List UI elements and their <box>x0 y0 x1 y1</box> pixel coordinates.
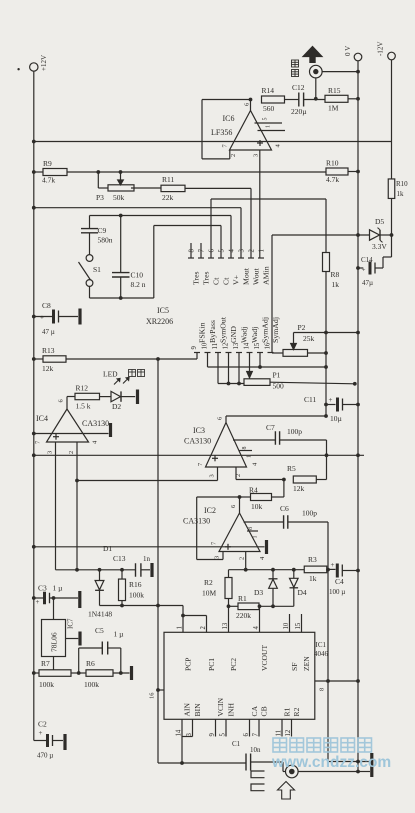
svg-text:D2: D2 <box>112 402 121 411</box>
svg-text:12k: 12k <box>293 484 305 493</box>
svg-text:AMin: AMin <box>261 266 270 285</box>
svg-text:10M: 10M <box>202 589 217 598</box>
svg-text:VCOUT: VCOUT <box>260 644 269 671</box>
svg-text:V+: V+ <box>231 274 240 285</box>
svg-text:R10: R10 <box>326 159 339 168</box>
svg-text:Tres: Tres <box>201 271 210 285</box>
svg-text:1M: 1M <box>328 104 339 113</box>
svg-text:+: + <box>329 396 333 404</box>
svg-text:R15: R15 <box>328 86 341 95</box>
svg-text:R13: R13 <box>42 346 55 355</box>
svg-text:22k: 22k <box>162 193 174 202</box>
svg-text:1k: 1k <box>397 190 405 198</box>
svg-text:47µ: 47µ <box>362 279 373 287</box>
svg-text:+: + <box>39 729 43 737</box>
svg-text:470 µ: 470 µ <box>37 752 53 760</box>
svg-text:Ct: Ct <box>211 277 220 285</box>
svg-text:C10: C10 <box>131 271 144 280</box>
svg-text:Mout: Mout <box>241 267 250 285</box>
svg-text:SymOut: SymOut <box>218 316 227 343</box>
svg-text:BIN: BIN <box>193 703 202 717</box>
svg-text:8: 8 <box>242 447 248 450</box>
svg-text:R12: R12 <box>76 384 89 393</box>
svg-text:12k: 12k <box>42 364 54 373</box>
svg-text:R4: R4 <box>249 486 258 495</box>
svg-text:100p: 100p <box>302 509 317 518</box>
svg-text:Wout: Wout <box>251 267 260 285</box>
svg-text:10k: 10k <box>251 502 263 511</box>
svg-text:C12: C12 <box>292 83 305 92</box>
svg-text:INH: INH <box>227 702 236 716</box>
svg-text:SymAdj: SymAdj <box>260 317 269 343</box>
svg-text:8.2 n: 8.2 n <box>131 280 146 289</box>
svg-text:C11: C11 <box>304 395 316 404</box>
svg-text:4: 4 <box>229 249 236 253</box>
svg-text:1: 1 <box>247 455 253 458</box>
svg-text:1n: 1n <box>143 555 151 563</box>
svg-text:LED: LED <box>103 370 118 379</box>
svg-text:220k: 220k <box>236 611 251 620</box>
svg-text:R5: R5 <box>287 464 296 473</box>
svg-text:8: 8 <box>319 688 326 691</box>
svg-text:R2: R2 <box>204 578 213 587</box>
svg-text:7: 7 <box>199 249 206 253</box>
svg-text:3: 3 <box>209 474 216 477</box>
svg-text:D4: D4 <box>298 588 307 597</box>
svg-text:+12V: +12V <box>40 55 48 71</box>
svg-text:1.5 k: 1.5 k <box>76 402 91 411</box>
svg-text:10µ: 10µ <box>330 414 343 423</box>
svg-text:CA: CA <box>250 705 259 716</box>
svg-text:C9: C9 <box>98 226 107 235</box>
svg-text:5: 5 <box>263 118 269 121</box>
svg-text:100k: 100k <box>39 680 54 689</box>
svg-text:R1: R1 <box>238 594 247 603</box>
svg-text:9: 9 <box>191 346 198 350</box>
svg-text:100k: 100k <box>129 591 144 600</box>
svg-text:+: + <box>331 561 335 569</box>
svg-text:1 µ: 1 µ <box>53 584 64 593</box>
svg-text:+: + <box>36 598 40 606</box>
svg-text:-12V: -12V <box>377 42 385 56</box>
svg-text:P2: P2 <box>298 323 306 332</box>
svg-text:SF: SF <box>290 663 299 671</box>
svg-text:2: 2 <box>68 451 75 454</box>
svg-text:FSKin: FSKin <box>197 323 206 343</box>
svg-text:4.7k: 4.7k <box>326 175 339 184</box>
svg-text:4: 4 <box>253 626 260 630</box>
svg-text:C4: C4 <box>335 577 344 586</box>
svg-text:1k: 1k <box>332 280 340 289</box>
svg-text:100k: 100k <box>84 680 99 689</box>
svg-text:C7: C7 <box>266 423 275 432</box>
svg-text:C1: C1 <box>232 740 241 748</box>
svg-text:PCP: PCP <box>184 657 193 671</box>
svg-text:GND: GND <box>229 326 238 343</box>
svg-text:2: 2 <box>249 249 256 253</box>
svg-text:IC4: IC4 <box>36 414 48 423</box>
svg-text:C6: C6 <box>280 504 289 513</box>
svg-text:D5: D5 <box>375 217 384 226</box>
svg-text:C8: C8 <box>42 301 51 310</box>
svg-text:100p: 100p <box>287 427 302 436</box>
svg-text:5: 5 <box>219 249 226 253</box>
svg-text:10n: 10n <box>250 746 261 754</box>
svg-text:LF356: LF356 <box>211 128 232 137</box>
svg-text:ZEN: ZEN <box>302 656 311 671</box>
svg-text:1: 1 <box>177 626 184 629</box>
svg-text:IC3: IC3 <box>193 426 205 435</box>
svg-text:Tres: Tres <box>191 271 200 285</box>
svg-text:R6: R6 <box>86 659 95 668</box>
svg-text:D1: D1 <box>103 544 112 553</box>
svg-text:4046: 4046 <box>314 650 329 658</box>
svg-text:2: 2 <box>235 474 242 477</box>
svg-text:+: + <box>362 266 366 274</box>
svg-text:R10: R10 <box>396 180 408 188</box>
svg-text:78L06: 78L06 <box>50 632 59 652</box>
svg-text:www.cndzz.com: www.cndzz.com <box>271 754 391 771</box>
svg-text:13: 13 <box>222 622 229 629</box>
svg-text:1: 1 <box>266 125 272 128</box>
svg-text:AIN: AIN <box>183 702 192 716</box>
svg-text:CA3130: CA3130 <box>183 517 210 526</box>
svg-text:580n: 580n <box>98 236 113 245</box>
svg-text:3: 3 <box>47 451 54 454</box>
svg-text:4.7k: 4.7k <box>42 176 55 185</box>
svg-text:25k: 25k <box>303 334 315 343</box>
svg-text:R1: R1 <box>283 707 292 716</box>
svg-text:PC1: PC1 <box>207 658 216 671</box>
svg-text:C13: C13 <box>113 554 126 563</box>
svg-text:D3: D3 <box>254 588 263 597</box>
svg-text:1 µ: 1 µ <box>114 630 125 639</box>
svg-text:1: 1 <box>259 249 266 252</box>
svg-text:Wadj: Wadj <box>250 327 259 343</box>
svg-text:2: 2 <box>200 626 207 630</box>
svg-text:IC1: IC1 <box>316 641 327 649</box>
svg-text:R8: R8 <box>331 270 340 279</box>
svg-text:CB: CB <box>260 706 269 716</box>
svg-text:100 µ: 100 µ <box>329 588 345 596</box>
svg-text:1k: 1k <box>309 574 317 583</box>
svg-text:P1: P1 <box>273 371 281 380</box>
svg-text:R7: R7 <box>41 659 50 668</box>
svg-text:R9: R9 <box>43 159 52 168</box>
svg-text:1N4148: 1N4148 <box>88 610 112 619</box>
svg-text:C3: C3 <box>38 584 47 593</box>
svg-text:ByPass: ByPass <box>208 320 217 343</box>
svg-text:Ct: Ct <box>221 277 230 285</box>
svg-text:IC7: IC7 <box>67 618 75 629</box>
svg-text:+: + <box>40 314 44 322</box>
svg-text:IC2: IC2 <box>204 506 216 515</box>
svg-text:R16: R16 <box>129 580 142 589</box>
svg-text:8: 8 <box>189 249 196 253</box>
svg-text:PC2: PC2 <box>229 658 238 671</box>
svg-text:R2: R2 <box>292 707 301 716</box>
svg-text:R14: R14 <box>262 86 275 95</box>
svg-text:P3: P3 <box>96 193 104 202</box>
svg-text:VCIN: VCIN <box>216 697 225 716</box>
svg-text:3: 3 <box>214 556 221 559</box>
svg-text:2: 2 <box>230 154 237 157</box>
svg-text:8: 8 <box>248 527 254 530</box>
svg-text:CA3130: CA3130 <box>82 419 109 428</box>
svg-text:2: 2 <box>238 557 245 560</box>
svg-text:16: 16 <box>149 692 156 699</box>
svg-text:3: 3 <box>239 249 246 253</box>
svg-text:560: 560 <box>263 104 275 113</box>
svg-text:3: 3 <box>253 154 260 157</box>
svg-text:C2: C2 <box>38 720 47 729</box>
svg-text:50k: 50k <box>113 193 125 202</box>
svg-text:47 µ: 47 µ <box>42 328 55 336</box>
svg-text:IC5: IC5 <box>157 306 169 315</box>
svg-text:0 V: 0 V <box>344 46 352 56</box>
svg-text:220µ: 220µ <box>291 107 307 116</box>
svg-text:CA3130: CA3130 <box>184 437 211 446</box>
svg-text:S1: S1 <box>93 265 101 274</box>
svg-text:Wadj: Wadj <box>239 327 248 343</box>
svg-text:XR2206: XR2206 <box>146 317 173 326</box>
svg-text:R11: R11 <box>162 175 174 184</box>
svg-text:C5: C5 <box>95 626 104 635</box>
svg-text:3.3V: 3.3V <box>372 242 387 251</box>
svg-text:R3: R3 <box>308 555 317 564</box>
svg-text:IC6: IC6 <box>223 114 235 123</box>
svg-text:1: 1 <box>253 536 259 539</box>
svg-text:6: 6 <box>209 249 216 253</box>
